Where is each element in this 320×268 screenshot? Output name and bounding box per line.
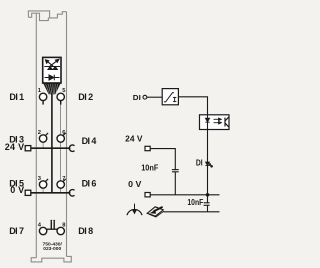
pin numbers <box>38 88 67 228</box>
24V wire <box>150 149 175 195</box>
emission arrows <box>46 59 59 66</box>
0V power line (module) <box>31 192 71 194</box>
terminal circle 7 <box>57 181 64 188</box>
0V clamp contact right <box>69 190 74 196</box>
channel labels <box>5 92 97 236</box>
terminal circle 6 <box>57 135 64 142</box>
internal gray contact line right column <box>60 101 62 193</box>
terminal circle 4 <box>39 227 46 234</box>
0V square contact left <box>25 190 31 195</box>
potential symbol (arc with arrow) <box>127 209 142 215</box>
svg-text:10nF: 10nF <box>187 198 203 207</box>
0V square terminal <box>145 193 150 197</box>
LED pair symbol <box>44 59 60 69</box>
svg-text:2: 2 <box>38 130 41 136</box>
terminal circle 2 <box>39 135 46 142</box>
24V square terminal <box>145 146 150 150</box>
gray stub circle2 to 24V line <box>42 143 44 149</box>
svg-text:DI 6: DI 6 <box>82 178 97 188</box>
svg-text:DI: DI <box>196 159 203 168</box>
earth line <box>164 211 220 213</box>
function box (LED + diode) <box>43 57 61 83</box>
opto phototransistor <box>225 117 229 127</box>
svg-text:0 V: 0 V <box>10 185 24 195</box>
junction dot <box>206 193 210 197</box>
svg-text:DI 7: DI 7 <box>9 226 24 236</box>
opto light arrows <box>214 118 222 124</box>
dark stubs below circles 1 and 5 <box>42 100 44 104</box>
svg-text:023-000: 023-000 <box>43 246 61 252</box>
0V wire <box>150 194 219 196</box>
order number <box>43 242 63 253</box>
hatched contact funnel <box>43 83 60 94</box>
right edge <box>66 12 68 257</box>
svg-text:DI: DI <box>133 93 141 102</box>
opto LED <box>205 115 209 130</box>
terminal circle 5 <box>57 93 64 100</box>
terminal circle 8 <box>57 227 64 234</box>
svg-text:24 V: 24 V <box>125 135 143 144</box>
svg-text:DI 1: DI 1 <box>9 92 24 102</box>
24V square contact left <box>25 146 31 151</box>
svg-text:10nF: 10nF <box>141 163 158 172</box>
24V power line (module) <box>31 147 71 149</box>
wire DI to filter box <box>147 96 162 98</box>
left edge <box>35 13 37 258</box>
svg-text:0 V: 0 V <box>128 180 142 189</box>
bottom profile <box>31 256 71 262</box>
module housing outline <box>28 11 71 262</box>
terminal circle 1 <box>39 93 46 100</box>
diode symbol <box>45 75 60 81</box>
svg-text:7: 7 <box>62 176 65 182</box>
central internal wire <box>51 94 53 193</box>
24V clamp contact right <box>69 145 74 151</box>
wire opto down to 0V <box>207 130 209 195</box>
svg-text:DI 2: DI 2 <box>78 92 93 102</box>
DIN rail contact symbol <box>147 207 164 217</box>
input filter box <box>162 89 178 105</box>
terminal circle 3 <box>39 181 46 188</box>
wire filter box to opto <box>179 97 208 115</box>
svg-text:DI 4: DI 4 <box>82 136 97 146</box>
gray stub circle3 to 0V line <box>42 189 44 193</box>
row4 link bar and prongs <box>47 228 58 230</box>
svg-text:DI 8: DI 8 <box>78 226 93 236</box>
optocoupler box <box>200 115 230 130</box>
top profile <box>28 11 49 21</box>
svg-text:24 V: 24 V <box>5 142 25 152</box>
